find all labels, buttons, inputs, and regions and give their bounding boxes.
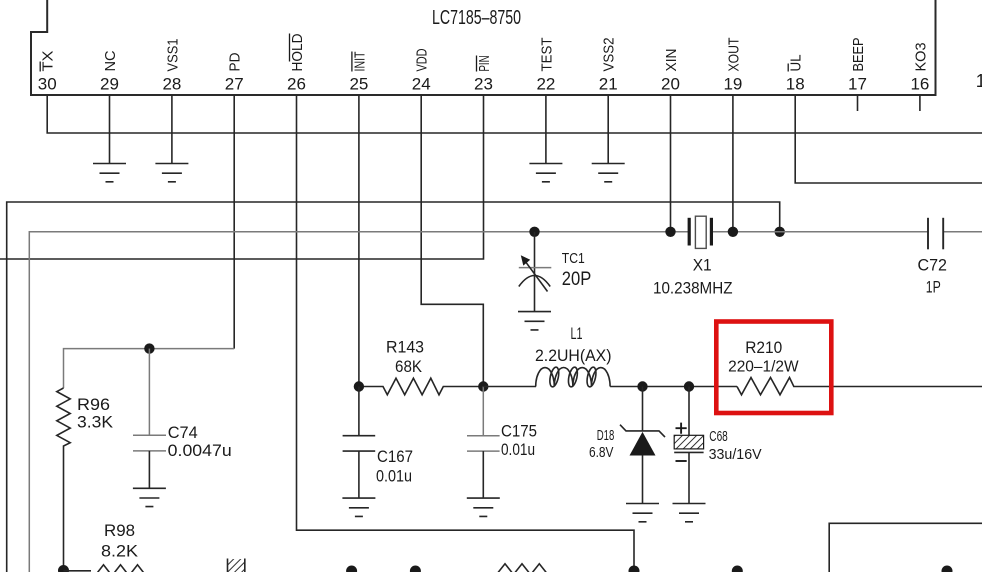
capacitor C72: [928, 218, 943, 250]
svg-text:R96: R96: [77, 395, 110, 414]
svg-text:LC7185–8750: LC7185–8750: [432, 7, 521, 29]
svg-text:VSS1: VSS1: [164, 39, 181, 72]
svg-text:17: 17: [848, 75, 867, 94]
svg-text:R98: R98: [104, 521, 135, 540]
svg-text:1: 1: [976, 71, 982, 91]
svg-text:3.3K: 3.3K: [77, 413, 114, 432]
node XOUT crystal: [728, 227, 738, 237]
wire pin 24 VDD route: [421, 95, 483, 387]
svg-text:BEEP: BEEP: [850, 38, 867, 72]
svg-text:C68: C68: [709, 429, 728, 445]
pin 26 HOLD label: [289, 33, 306, 71]
node HOLD bottom: [629, 566, 640, 572]
ground at pin 29: [93, 164, 126, 182]
ground at D18: [626, 504, 659, 522]
svg-text:R143: R143: [386, 338, 424, 357]
resistor R143: [359, 378, 483, 395]
wire pin 19 XOUT vertical: [732, 95, 734, 232]
svg-text:23: 23: [474, 75, 493, 94]
node D18 top: [637, 381, 647, 391]
pin 18 UL label: [788, 55, 805, 72]
crystal X1: [689, 216, 711, 248]
wire pin 22 stub: [545, 95, 547, 164]
wire pin 23 PIN route: [0, 95, 484, 259]
pin 21 VSS2 label: [601, 38, 618, 72]
wire pin 18 UL route to right edge: [795, 95, 982, 183]
pin 16 KO3 label: [912, 43, 929, 72]
pin 19 XOUT label: [725, 38, 742, 72]
svg-text:10.238MHZ: 10.238MHZ: [653, 279, 733, 298]
pin 29 NC label: [102, 50, 119, 71]
svg-text:2.2UH(AX): 2.2UH(AX): [535, 346, 612, 365]
trimmer capacitor TC1: [519, 232, 552, 312]
node bottom bus D: [942, 566, 953, 572]
node bottom bus C: [732, 566, 743, 572]
wire pin 28 stub: [171, 95, 173, 164]
svg-text:R210: R210: [745, 338, 782, 357]
pin 30 TX label: [40, 51, 57, 72]
wire pin 29 stub: [109, 95, 111, 164]
pin 24 VDD label: [414, 48, 431, 71]
svg-text:28: 28: [162, 75, 181, 94]
svg-text:C72: C72: [918, 255, 948, 274]
wire net C y202 with left drop: [7, 202, 780, 572]
zener diode D18: [620, 387, 665, 504]
pin 22 TEST label: [538, 38, 555, 72]
ground at pin 22: [529, 164, 562, 182]
svg-text:20P: 20P: [562, 268, 592, 290]
svg-text:TC1: TC1: [562, 250, 585, 267]
svg-text:6.8V: 6.8V: [589, 445, 614, 461]
node bottom bus B: [410, 566, 421, 572]
svg-text:16: 16: [910, 75, 929, 94]
svg-text:33u/16V: 33u/16V: [709, 447, 762, 463]
IC U1 LC7185-8750 outline: [31, 0, 936, 95]
ground at TC1: [518, 312, 551, 330]
wire pin 21 stub: [607, 95, 609, 164]
wire pin 26 HOLD route: [297, 95, 635, 571]
pin 17 BEEP label: [850, 38, 867, 72]
capacitor C167: [343, 387, 376, 499]
red highlight box around R210: [716, 322, 831, 414]
oscillator wire y232 with left drop: [29, 232, 982, 572]
svg-text:0.01u: 0.01u: [501, 440, 535, 459]
svg-text:0.0047u: 0.0047u: [168, 441, 232, 460]
capacitor C74: [133, 349, 166, 489]
svg-text:20: 20: [661, 75, 680, 94]
pin 20 XIN label: [663, 49, 680, 72]
node R96 top / C74: [144, 343, 154, 353]
node at 779.7,231.8: [775, 227, 785, 237]
svg-text:VSS2: VSS2: [601, 38, 618, 72]
node XIN crystal: [665, 227, 675, 237]
ground at pin 21: [592, 164, 625, 182]
inductor L1: [483, 366, 737, 387]
pin 27 PD label: [227, 52, 244, 71]
ground at C74: [133, 488, 166, 506]
resistor partial at bottom center: [495, 564, 550, 572]
ground at pin 28: [155, 164, 188, 182]
pin 17 stub: [857, 95, 859, 111]
svg-text:27: 27: [225, 75, 244, 94]
svg-text:19: 19: [723, 75, 742, 94]
node R96 bottom: [58, 565, 69, 572]
svg-text:XOUT: XOUT: [725, 38, 742, 72]
svg-text:26: 26: [287, 75, 306, 94]
electrolytic capacitor C68: [674, 387, 703, 504]
resistor R98 partial at bottom edge: [64, 565, 148, 572]
box outline bottom right: [829, 523, 982, 572]
svg-text:C175: C175: [501, 422, 537, 441]
node bottom bus A: [346, 566, 357, 572]
pin 25 INIT label: [351, 52, 368, 72]
resistor R96: [57, 349, 234, 571]
pin 23 PIN label: [476, 56, 493, 72]
svg-text:22: 22: [536, 75, 555, 94]
svg-text:1P: 1P: [926, 277, 941, 296]
svg-text:C167: C167: [377, 447, 413, 466]
svg-text:NC: NC: [102, 50, 119, 71]
wire pin 27 PD vertical: [233, 95, 235, 349]
svg-text:KO3: KO3: [912, 43, 929, 72]
svg-text:18: 18: [786, 75, 805, 94]
hatched element at bottom edge: [228, 559, 245, 572]
pin 28 VSS1 label: [164, 39, 181, 72]
svg-text:VDD: VDD: [414, 48, 431, 71]
ground at C167: [342, 498, 375, 516]
svg-text:68K: 68K: [395, 357, 423, 376]
svg-text:INIT: INIT: [351, 52, 368, 72]
svg-text:L1: L1: [571, 324, 583, 343]
node C68 top: [684, 381, 694, 391]
svg-text:24: 24: [412, 75, 431, 94]
svg-text:TX: TX: [40, 51, 57, 72]
svg-text:PD: PD: [227, 52, 244, 71]
svg-text:30: 30: [38, 75, 57, 94]
svg-text:TEST: TEST: [538, 38, 555, 72]
wire pin30 to bus line A y133: [47, 95, 982, 133]
capacitor C175: [467, 387, 500, 499]
svg-text:D18: D18: [597, 428, 615, 444]
ground at C68: [673, 504, 706, 522]
svg-text:0.01u: 0.01u: [376, 467, 412, 486]
resistor R210: [737, 378, 982, 395]
svg-text:PIN: PIN: [476, 56, 493, 72]
wire pin 25 INIT vertical: [358, 95, 360, 387]
svg-text:X1: X1: [693, 255, 712, 274]
ground at C175: [467, 498, 500, 516]
node R143 right: [478, 381, 488, 391]
svg-text:25: 25: [349, 75, 368, 94]
svg-text:21: 21: [599, 75, 618, 94]
svg-text:UL: UL: [788, 55, 805, 72]
svg-text:C74: C74: [168, 423, 198, 442]
wire pin 20 XIN vertical: [670, 95, 672, 232]
svg-text:HOLD: HOLD: [289, 33, 306, 71]
svg-text:8.2K: 8.2K: [101, 542, 139, 561]
svg-text:29: 29: [100, 75, 119, 94]
node TC1 top: [529, 227, 539, 237]
svg-text:220–1/2W: 220–1/2W: [728, 358, 799, 375]
svg-text:XIN: XIN: [663, 49, 680, 72]
node R143 left: [354, 381, 364, 391]
pin 16 stub: [919, 95, 921, 111]
